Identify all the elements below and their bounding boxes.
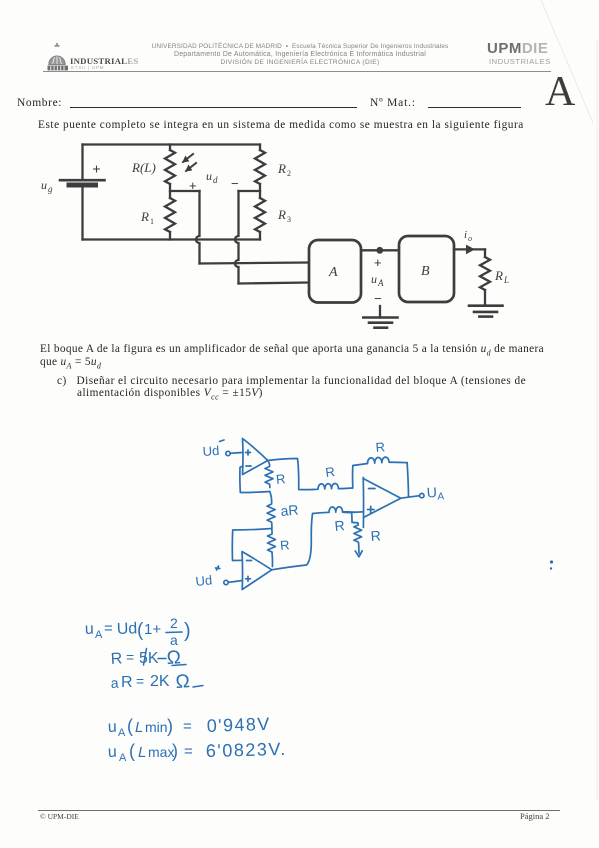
svg-text:R: R [279, 537, 290, 553]
svg-text:Ud: Ud [117, 620, 138, 638]
wire right tap stub [239, 190, 261, 192]
svg-text:L: L [138, 744, 146, 761]
wire left branch lower [81, 188, 83, 240]
wire R(L) top stub [169, 145, 171, 151]
svg-text:U: U [426, 484, 437, 501]
resistor R (to ground) [354, 523, 381, 546]
svg-text:Ud: Ud [195, 572, 213, 589]
terminal U_A [420, 484, 445, 503]
resistor R (U3 input from U2) [329, 507, 356, 534]
svg-text:0'948V: 0'948V [206, 714, 271, 736]
stray ink dots [550, 560, 553, 569]
wire U3 minus input / feedback tap [353, 464, 368, 489]
wire bottom rail [83, 238, 261, 240]
node uA dot [376, 247, 383, 254]
op-amp U1 [243, 439, 268, 475]
equation uA = Ud(1+2/a) [85, 615, 191, 648]
ground uA [363, 318, 397, 328]
svg-text:R: R [334, 517, 345, 534]
resistor R1 [140, 198, 175, 232]
op-amp U2 [242, 552, 272, 590]
svg-text:=: = [183, 718, 192, 735]
svg-text:a: a [110, 675, 119, 691]
resistor aR [267, 492, 299, 529]
wire A to B [361, 249, 399, 251]
wire U3 plus junction [343, 512, 358, 523]
resistor R (U1 feedback, chain top) [265, 462, 286, 487]
block B [399, 236, 454, 302]
wire RL bottom stub [484, 290, 486, 306]
node u_A labels [371, 255, 384, 306]
resistor R (U3 input from U1) [313, 464, 353, 490]
svg-text:2K: 2K [150, 673, 170, 690]
svg-text:=: = [104, 620, 113, 637]
svg-text:u: u [108, 719, 117, 736]
equation uA(Lmin) [108, 714, 271, 739]
wire U3 plus lead [352, 511, 363, 514]
arrow i_o [464, 229, 475, 254]
svg-text:A: A [118, 727, 126, 739]
ground arrow [355, 545, 362, 557]
wire Ud+ to U2 [228, 581, 242, 583]
footer [38, 810, 560, 811]
wire U3 feedback down to output [407, 463, 408, 497]
terminal Ud+ [195, 566, 228, 589]
resistor R (U3 feedback) [367, 439, 407, 463]
paragraph 1 [38, 119, 524, 131]
svg-text:a: a [170, 632, 178, 648]
wire B output [454, 248, 485, 250]
wire R1 bottom stub [169, 232, 171, 240]
resistor R(L) [131, 150, 175, 184]
svg-text:aR: aR [280, 501, 299, 518]
svg-text:R: R [110, 650, 122, 668]
svg-text:min: min [145, 719, 168, 735]
wire R2 top stub [259, 145, 261, 151]
paragraph 2 [40, 343, 599, 368]
svg-text:R: R [275, 471, 286, 487]
svg-text:): ) [184, 620, 191, 642]
wire left tap vertical with hop [196, 191, 199, 264]
center header text [130, 43, 470, 67]
svg-text:1+: 1+ [144, 621, 161, 638]
resistor R3 [255, 198, 291, 232]
header rule [43, 71, 551, 72]
svg-text:R: R [325, 464, 336, 480]
ETSII dome logo [44, 41, 86, 73]
wire uA ground stem [379, 306, 381, 318]
Nombre row [17, 97, 62, 109]
svg-text:Ω: Ω [175, 671, 191, 693]
svg-text:R: R [121, 674, 133, 691]
wire node1 feedback to U1 minus [240, 466, 270, 493]
equation R = 5kOhm [110, 647, 186, 669]
UPMDIE logo [487, 40, 548, 57]
wire RL top stub [484, 249, 486, 257]
wire top rail [83, 143, 261, 145]
svg-text:6'0823V.: 6'0823V. [206, 739, 287, 761]
equation uA(Lmax) [108, 739, 287, 764]
ground RL [469, 306, 503, 317]
svg-text:u: u [85, 621, 94, 638]
block A [309, 240, 361, 303]
battery u_g [41, 161, 105, 195]
wire node2 feedback to U2 minus [232, 529, 271, 561]
svg-text:A: A [438, 492, 445, 503]
svg-text:(: ( [137, 620, 144, 641]
op-amp U3 [363, 478, 401, 528]
svg-text:A: A [95, 629, 103, 641]
equation aR = 2kOhm [110, 671, 203, 693]
svg-text:2: 2 [170, 615, 178, 631]
svg-text:(: ( [129, 741, 135, 761]
resistor R (U2 feedback, chain bottom) [268, 529, 291, 567]
svg-text:(: ( [127, 716, 133, 736]
svg-text:5K: 5K [139, 650, 159, 667]
svg-text:): ) [172, 741, 178, 761]
wire U3 output [401, 496, 419, 498]
wire left tap stub [170, 190, 200, 192]
light arrows [183, 154, 196, 171]
svg-text:R: R [375, 439, 386, 455]
svg-text:=: = [126, 649, 134, 665]
big A [545, 68, 575, 116]
svg-text:L: L [135, 719, 143, 736]
wire R2-R3 junction [259, 184, 261, 198]
wire Ud- to U1 [230, 452, 242, 455]
wire R(L)-R1 junction [169, 184, 171, 198]
svg-text:Ud: Ud [202, 443, 220, 459]
wire U1 output [268, 459, 313, 490]
wire R3 bottom stub [259, 232, 261, 240]
wire left tap to block A [200, 263, 309, 264]
svg-text:=: = [184, 743, 193, 760]
wire right tap to block A [239, 283, 309, 284]
svg-text:A: A [119, 752, 127, 764]
svg-text:R: R [370, 527, 381, 544]
wire right tap vertical with hops [235, 191, 238, 284]
svg-text:): ) [167, 716, 173, 736]
terminal Ud- [202, 440, 230, 459]
wire U2 output [272, 512, 329, 570]
wire left branch upper [81, 145, 83, 179]
resistor R2 [255, 150, 291, 184]
svg-text:=: = [136, 673, 144, 689]
resistor RL [480, 257, 509, 290]
node u_d labels [189, 169, 239, 193]
svg-text:max: max [148, 744, 174, 760]
svg-text:u: u [108, 744, 117, 761]
